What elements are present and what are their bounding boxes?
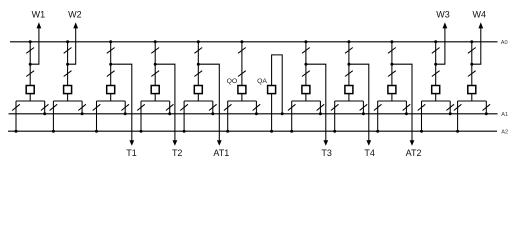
wire box to changeover bar branch 4 xyxy=(154,94,156,101)
wire branch 2 vertical from A0 to box xyxy=(67,42,69,86)
bus A1 xyxy=(9,113,498,115)
disconnector slash lower, branch 10 xyxy=(388,71,396,77)
svg-text:T4: T4 xyxy=(364,148,375,158)
junction right leg / A1 branch 10 xyxy=(405,112,408,115)
wire box to changeover bar branch 12 xyxy=(471,94,473,101)
arrow head T4 xyxy=(366,140,371,146)
contact box branch 6 xyxy=(238,86,246,94)
bus A0 xyxy=(10,41,498,43)
disconnector slash upper, branch 1 xyxy=(26,48,34,54)
arrow head T1 xyxy=(129,140,134,146)
junction branch 5 / A0 xyxy=(197,40,200,43)
node branch 11 tap junction xyxy=(434,63,437,66)
contact slash left leg branch 3 xyxy=(93,104,101,110)
svg-text:T3: T3 xyxy=(321,148,332,158)
disconnector slash lower, branch 12 xyxy=(468,71,476,77)
arrow head W2 xyxy=(73,22,78,28)
wire tap to arrow W2 xyxy=(68,28,76,64)
contact slash right leg branch 11 xyxy=(446,104,454,110)
wire box to changeover bar branch 11 xyxy=(435,94,437,101)
svg-text:A2: A2 xyxy=(501,129,508,135)
contact box branch 9 xyxy=(345,86,353,94)
changeover top bar branch 10 xyxy=(378,100,407,102)
contact slash left leg branch 6 xyxy=(224,104,232,110)
wire box to changeover bar branch 3 xyxy=(110,94,112,101)
disconnector slash upper, branch 4 xyxy=(151,48,159,54)
node branch 12 tap junction xyxy=(470,63,473,66)
junction left leg / A2 branch 10 xyxy=(376,130,379,133)
contact slash left leg branch 9 xyxy=(331,104,339,110)
svg-text:AT1: AT1 xyxy=(213,148,229,158)
changeover top bar branch 6 xyxy=(228,100,257,102)
junction left leg / A2 branch 4 xyxy=(140,130,143,133)
junction left leg / A2 branch 5 xyxy=(183,130,186,133)
wire branch 1 vertical from A0 to box xyxy=(29,42,31,86)
junction left leg / A2 branch 6 xyxy=(226,130,229,133)
node branch 5 tap junction xyxy=(197,63,200,66)
wire tap to arrow W1 xyxy=(30,28,39,64)
wire changeover left leg to A2 branch 4 xyxy=(140,101,142,131)
disconnector slash lower, branch 8 xyxy=(302,71,310,77)
contact slash left leg branch 8 xyxy=(288,104,296,110)
arrow head AT1 xyxy=(217,140,222,146)
junction right leg / A1 branch 8 xyxy=(319,112,322,115)
junction QA / A2 xyxy=(270,130,273,133)
contact box branch 4 xyxy=(151,86,159,94)
contact slash left leg branch 5 xyxy=(180,104,188,110)
contact slash right leg branch 6 xyxy=(253,104,261,110)
junction branch 9 / A0 xyxy=(347,40,350,43)
wire changeover left leg to A2 branch 12 xyxy=(457,101,459,131)
svg-text:A0: A0 xyxy=(501,40,508,46)
disconnector slash lower, branch 2 xyxy=(64,71,72,77)
wire changeover right leg to A1 branch 4 xyxy=(169,101,171,114)
wire changeover right leg to A1 branch 11 xyxy=(449,101,451,114)
junction right leg / A1 branch 11 xyxy=(449,112,452,115)
wire tap to arrow AT1 xyxy=(198,64,219,140)
contact box branch 5 xyxy=(194,86,202,94)
disconnector slash upper, branch 11 xyxy=(432,48,440,54)
node branch 3 tap junction xyxy=(109,63,112,66)
junction left leg / A2 branch 8 xyxy=(290,130,293,133)
junction right leg / A1 branch 6 xyxy=(255,112,258,115)
wire changeover left leg to A2 branch 9 xyxy=(334,101,336,131)
contact slash left leg branch 2 xyxy=(50,104,58,110)
wire changeover right leg to A1 branch 1 xyxy=(44,101,46,114)
junction left leg / A2 branch 3 xyxy=(95,130,98,133)
junction branch 2 / A0 xyxy=(66,40,69,43)
wire branch 4 vertical from A0 to box xyxy=(154,42,156,86)
changeover top bar branch 9 xyxy=(335,100,364,102)
contactor QA box xyxy=(268,86,276,94)
disconnector slash upper, branch 5 xyxy=(194,48,202,54)
svg-text:AT2: AT2 xyxy=(406,148,422,158)
junction branch 8 / A0 xyxy=(304,40,307,43)
wire branch 9 vertical from A0 to box xyxy=(348,42,350,86)
junction branch 10 / A0 xyxy=(390,40,393,43)
wire box to changeover bar branch 2 xyxy=(67,94,69,101)
junction branch 11 / A0 xyxy=(434,40,437,43)
wire branch 11 vertical from A0 to box xyxy=(435,42,437,86)
junction branch 12 / A0 xyxy=(470,40,473,43)
wire tap to arrow AT2 xyxy=(392,64,412,140)
arrow head W3 xyxy=(443,22,448,28)
wire changeover right leg to A1 branch 8 xyxy=(319,101,321,114)
wire tap to arrow W3 xyxy=(436,28,445,64)
junction left leg / A2 branch 9 xyxy=(333,130,336,133)
wire tap to arrow T3 xyxy=(306,64,326,140)
changeover top bar branch 11 xyxy=(422,100,451,102)
contact slash right leg branch 8 xyxy=(317,104,325,110)
svg-text:T2: T2 xyxy=(172,148,183,158)
wire changeover right leg to A1 branch 5 xyxy=(212,101,214,114)
disconnector slash lower, branch 11 xyxy=(432,71,440,77)
arrow head AT2 xyxy=(410,140,415,146)
contact slash right leg branch 4 xyxy=(166,104,174,110)
changeover top bar branch 4 xyxy=(141,100,170,102)
wire branch 6 vertical from A0 to box xyxy=(241,42,243,86)
junction right leg / A1 branch 4 xyxy=(168,112,171,115)
junction left leg / A2 branch 2 xyxy=(52,130,55,133)
wire QA box to A2 xyxy=(271,94,273,132)
contact slash left leg branch 4 xyxy=(137,104,145,110)
bus A2 xyxy=(8,130,497,132)
arrow head T2 xyxy=(173,140,178,146)
svg-text:W2: W2 xyxy=(68,10,82,20)
wire changeover left leg to A2 branch 5 xyxy=(183,101,185,131)
wire changeover right leg to A1 branch 2 xyxy=(81,101,83,114)
changeover top bar branch 5 xyxy=(184,100,213,102)
wire tap to arrow T1 xyxy=(111,64,132,140)
contact slash left leg branch 1 xyxy=(12,104,20,110)
changeover top bar branch 2 xyxy=(53,100,82,102)
disconnector slash upper, branch 8 xyxy=(302,48,310,54)
disconnector slash lower, branch 1 xyxy=(26,71,34,77)
wire changeover left leg to A2 branch 8 xyxy=(291,101,293,131)
wire changeover left leg to A2 branch 10 xyxy=(377,101,379,131)
svg-text:A1: A1 xyxy=(501,112,508,118)
disconnector slash upper, branch 10 xyxy=(388,48,396,54)
junction right leg / A1 branch 5 xyxy=(211,112,214,115)
wire changeover right leg to A1 branch 3 xyxy=(124,101,126,114)
arrow head W4 xyxy=(478,22,483,28)
junction left leg / A2 branch 12 xyxy=(456,130,459,133)
wire changeover right leg to A1 branch 12 xyxy=(485,101,487,114)
wire box to changeover bar branch 1 xyxy=(29,94,31,101)
contact box branch 3 xyxy=(107,86,115,94)
wire changeover left leg to A2 branch 3 xyxy=(96,101,98,131)
junction right leg / A1 branch 1 xyxy=(43,112,46,115)
contact slash right leg branch 3 xyxy=(121,104,129,110)
node branch 1 tap junction xyxy=(29,63,32,66)
contact slash left leg branch 12 xyxy=(454,104,462,110)
wire changeover right leg to A1 branch 9 xyxy=(362,101,364,114)
changeover top bar branch 8 xyxy=(292,100,321,102)
wire changeover left leg to A2 branch 2 xyxy=(52,101,54,131)
contact box branch 12 xyxy=(468,86,476,94)
wire box to changeover bar branch 10 xyxy=(391,94,393,101)
wire branch 3 vertical from A0 to box xyxy=(110,42,112,86)
junction branch 3 / A0 xyxy=(109,40,112,43)
arrow head T3 xyxy=(323,140,328,146)
disconnector slash upper, branch 2 xyxy=(64,48,72,54)
disconnector slash lower, branch 4 xyxy=(151,71,159,77)
wire box to changeover bar branch 5 xyxy=(197,94,199,101)
contact slash right leg branch 12 xyxy=(483,104,491,110)
junction branch 6 / A0 xyxy=(240,40,243,43)
disconnector slash upper, branch 9 xyxy=(345,48,353,54)
wire tap to arrow T4 xyxy=(349,64,369,140)
svg-text:W1: W1 xyxy=(32,10,46,20)
disconnector slash lower, branch 5 xyxy=(194,71,202,77)
contact box branch 11 xyxy=(432,86,440,94)
wire changeover left leg to A2 branch 6 xyxy=(227,101,229,131)
junction right leg / A1 branch 2 xyxy=(81,112,84,115)
node branch 9 tap junction xyxy=(347,63,350,66)
junction branch 4 / A0 xyxy=(154,40,157,43)
junction branch 1 / A0 xyxy=(29,40,32,43)
wire branch 5 vertical from A0 to box xyxy=(197,42,199,86)
changeover top bar branch 12 xyxy=(458,100,487,102)
contact box branch 2 xyxy=(64,86,72,94)
contact slash left leg branch 10 xyxy=(374,104,382,110)
changeover top bar branch 3 xyxy=(97,100,126,102)
node branch 4 tap junction xyxy=(154,63,157,66)
junction QA / A1 xyxy=(281,112,284,115)
junction left leg / A2 branch 11 xyxy=(420,130,423,133)
contact slash right leg branch 1 xyxy=(41,104,49,110)
wire tap to arrow T2 xyxy=(155,64,175,140)
svg-text:QO: QO xyxy=(227,78,238,85)
svg-text:W4: W4 xyxy=(473,10,487,20)
contact slash left leg branch 11 xyxy=(418,104,426,110)
svg-text:T1: T1 xyxy=(126,148,137,158)
svg-text:W3: W3 xyxy=(436,10,450,20)
wire box to changeover bar branch 8 xyxy=(305,94,307,101)
junction left leg / A2 branch 1 xyxy=(15,130,18,133)
junction right leg / A1 branch 12 xyxy=(485,112,488,115)
wire changeover left leg to A2 branch 1 xyxy=(15,101,17,131)
contact box branch 10 xyxy=(388,86,396,94)
contact box branch 8 xyxy=(302,86,310,94)
disconnector slash upper, branch 12 xyxy=(468,48,476,54)
contact slash right leg branch 2 xyxy=(78,104,86,110)
wire box to changeover bar branch 9 xyxy=(348,94,350,101)
wire branch 10 vertical from A0 to box xyxy=(391,42,393,86)
disconnector slash upper, branch 6 xyxy=(238,48,246,54)
junction right leg / A1 branch 9 xyxy=(362,112,365,115)
svg-text:QA: QA xyxy=(257,78,267,85)
wire tap to arrow W4 xyxy=(472,28,481,64)
wire QA loop: A1 up-and-over to contactor QA xyxy=(272,55,283,114)
wire changeover right leg to A1 branch 10 xyxy=(405,101,407,114)
contact box branch 1 xyxy=(26,86,34,94)
wire branch 8 vertical from A0 to box xyxy=(305,42,307,86)
wire branch 12 vertical from A0 to box xyxy=(471,42,473,86)
contact slash right leg branch 9 xyxy=(360,104,368,110)
wire box to changeover bar branch 6 xyxy=(241,94,243,101)
arrow head W1 xyxy=(37,22,42,28)
disconnector slash lower, branch 3 xyxy=(107,71,115,77)
node branch 10 tap junction xyxy=(390,63,393,66)
node branch 8 tap junction xyxy=(304,63,307,66)
junction right leg / A1 branch 3 xyxy=(124,112,127,115)
disconnector slash lower, branch 6 xyxy=(238,71,246,77)
changeover top bar branch 1 xyxy=(16,100,45,102)
node branch 2 tap junction xyxy=(66,63,69,66)
wire changeover right leg to A1 branch 6 xyxy=(255,101,257,114)
wire changeover left leg to A2 branch 11 xyxy=(421,101,423,131)
contact slash right leg branch 5 xyxy=(209,104,217,110)
disconnector slash upper, branch 3 xyxy=(107,48,115,54)
contact slash right leg branch 10 xyxy=(403,104,411,110)
disconnector slash lower, branch 9 xyxy=(345,71,353,77)
